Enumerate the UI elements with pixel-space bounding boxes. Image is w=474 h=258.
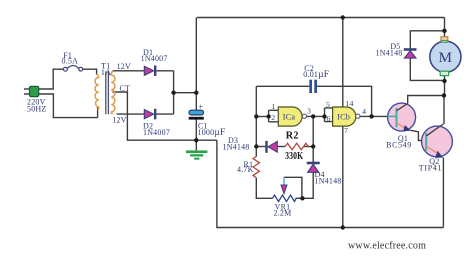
junction VR1 wiper / D4 anode <box>300 196 304 200</box>
wire ground rail down and bottom rail <box>217 140 444 227</box>
svg-text:M: M <box>439 50 453 66</box>
wire node A to C2 left <box>256 85 309 87</box>
wire node A to D3 cathode <box>256 146 266 148</box>
wire 12V top tap to D1 <box>113 70 145 72</box>
wire D1 cathode out <box>156 70 173 72</box>
svg-text:1N4148: 1N4148 <box>315 177 342 186</box>
diode D2 1N4007 <box>144 109 155 120</box>
svg-text:5: 5 <box>326 100 330 109</box>
svg-text:6: 6 <box>326 114 330 123</box>
pin number labels <box>271 99 366 135</box>
transistor Q2 TIP41 <box>422 124 453 158</box>
wire +V vertical to C1 <box>195 18 197 111</box>
junction C1 bottom / ground rail <box>194 138 198 142</box>
label Q1 BC549 <box>386 134 412 149</box>
wire C2 right to ICb output node <box>317 86 372 116</box>
diode D1 1N4007 <box>144 66 155 77</box>
junction D1-D2 cathodes <box>171 91 175 95</box>
svg-text:2.2M: 2.2M <box>274 209 292 218</box>
svg-text:1N4148: 1N4148 <box>223 143 250 152</box>
junction ICb input bar <box>322 114 326 118</box>
label C1 1000uF <box>198 122 226 138</box>
label VR1 2.2M <box>274 203 292 218</box>
wire D4 bottom to VR1 junction <box>302 172 313 198</box>
diode D3 1N4148 <box>267 141 278 153</box>
potentiometer VR1 2.2M <box>273 177 297 201</box>
svg-text:ICb: ICb <box>337 113 350 122</box>
wire CT to ground rail <box>113 92 217 140</box>
junction node B / ICa output <box>311 114 315 118</box>
diode D5 1N4148 <box>404 50 417 59</box>
wire bridge tap to C1 node <box>174 92 197 94</box>
wire plug live to fuse <box>39 69 64 89</box>
svg-text:2: 2 <box>271 113 275 122</box>
wire node B vertical to D4 <box>312 116 314 162</box>
svg-text:ICa: ICa <box>283 112 296 121</box>
label D5 1N4148 <box>376 42 403 58</box>
svg-text:www.elecfree.com: www.elecfree.com <box>348 241 426 252</box>
wire top +V rail <box>197 17 445 19</box>
label D4 1N4148 <box>315 170 342 185</box>
ground <box>186 150 207 159</box>
wire VR1 wiper loop <box>284 177 302 198</box>
NAND gate ICb <box>333 107 360 126</box>
junction motor bottom / D5 anode <box>442 79 446 83</box>
svg-text:12V: 12V <box>112 115 126 124</box>
wire plug neutral to primary bottom <box>39 94 98 118</box>
wire ICa input bar <box>269 110 279 122</box>
svg-text:1N4007: 1N4007 <box>143 128 170 137</box>
label D1 1N4007 <box>141 48 168 63</box>
wire node A vertical <box>255 86 257 156</box>
svg-text:4: 4 <box>362 107 366 116</box>
plug P1 220V <box>24 86 39 96</box>
svg-text:1: 1 <box>271 102 275 111</box>
svg-text:1N4007: 1N4007 <box>141 54 168 63</box>
resistor R1 4.7K <box>253 157 259 178</box>
wire D5 bottom to motor bottom <box>410 58 444 80</box>
label Q2 TIP41 <box>419 157 443 173</box>
wire Q1 collector up <box>408 96 444 104</box>
junction node B / R2-D4 <box>311 144 315 148</box>
svg-text:3: 3 <box>307 106 311 115</box>
svg-text:50HZ: 50HZ <box>27 104 46 113</box>
junction Q1 collector / Q2 collector <box>442 93 446 97</box>
diode D4 1N4148 <box>307 163 320 172</box>
resistor R2 330K <box>285 143 308 149</box>
wire C1 bottom lead <box>195 120 197 141</box>
wire D2 cathode out <box>156 113 173 115</box>
svg-text:CT: CT <box>120 84 131 93</box>
transformer T1 primary coil <box>95 74 99 110</box>
capacitor C1 1000uF <box>189 102 204 119</box>
junction pin7 / bottom rail <box>341 225 345 229</box>
svg-text:+: + <box>199 102 204 111</box>
wire ICa output to ICb input <box>307 115 325 117</box>
svg-text:R2: R2 <box>286 131 299 142</box>
capacitor C2 0.01uF <box>309 80 317 93</box>
transformer T1 secondary coil <box>111 71 115 113</box>
junction top rail / IC pin14 <box>341 15 345 19</box>
wire ICb input bar <box>325 108 333 122</box>
svg-text:14: 14 <box>345 99 353 108</box>
junction node A / D3 row <box>254 144 258 148</box>
svg-text:1A: 1A <box>101 68 111 77</box>
wire ICb output pin4 <box>360 115 388 117</box>
svg-text:0.5A: 0.5A <box>62 56 79 65</box>
wire under primary coil <box>97 107 99 118</box>
svg-text:7: 7 <box>344 126 348 135</box>
NAND gate ICa <box>278 107 306 126</box>
svg-text:0.01µF: 0.01µF <box>303 70 329 80</box>
motor M <box>430 37 461 76</box>
wire 12V bottom tap to D2 <box>117 113 145 115</box>
junction C2 right / pin4 net <box>369 114 373 118</box>
wire ICb pin14 to +V rail <box>342 18 344 108</box>
label C2 0.01uF <box>303 64 329 80</box>
wire motor top feed <box>444 18 446 38</box>
label D2 1N4007 <box>143 121 170 137</box>
svg-text:1N4148: 1N4148 <box>376 49 403 58</box>
wire D1-D2 cathode bridge <box>173 71 175 114</box>
junction node A / ICa input feed <box>254 114 258 118</box>
junction +V feed to C1 <box>194 91 198 95</box>
label F1 0.5A <box>62 51 79 65</box>
wire R2 to node B <box>304 146 314 148</box>
wire D3 anode to R2 <box>277 146 285 148</box>
fuse F1 <box>64 66 83 72</box>
wire VR1 right to junction <box>296 197 303 199</box>
svg-text:TIP41: TIP41 <box>419 164 443 173</box>
label D3 1N4148 <box>223 136 250 152</box>
label R1 4.7K <box>237 160 254 174</box>
wire Q1 emitter to Q2 base <box>411 130 427 140</box>
wire R1 bottom to VR1 left <box>256 178 272 199</box>
junction ICa input bar <box>266 114 270 118</box>
svg-text:1000µF: 1000µF <box>198 128 226 138</box>
junction D5 cathode / +V <box>442 29 446 33</box>
svg-text:BC549: BC549 <box>386 140 412 149</box>
wire fuse to primary top <box>83 69 97 74</box>
svg-text:12V: 12V <box>117 62 131 71</box>
svg-text:330K: 330K <box>285 151 303 162</box>
transistor Q1 BC549 <box>388 103 416 131</box>
transformer T1 core <box>106 71 109 114</box>
label T1 1A <box>101 61 111 77</box>
wire ICb pin7 to bottom rail <box>342 126 344 227</box>
wire Q2 emitter to bottom rail <box>442 158 444 228</box>
wire D5 top to +V <box>410 31 444 49</box>
wire motor bottom to Q2 collector <box>443 76 446 124</box>
svg-text:4.7K: 4.7K <box>237 165 254 174</box>
wire ICa input feed <box>256 116 268 118</box>
wire ground stub <box>195 140 197 150</box>
label 220V 50HZ <box>27 98 46 114</box>
